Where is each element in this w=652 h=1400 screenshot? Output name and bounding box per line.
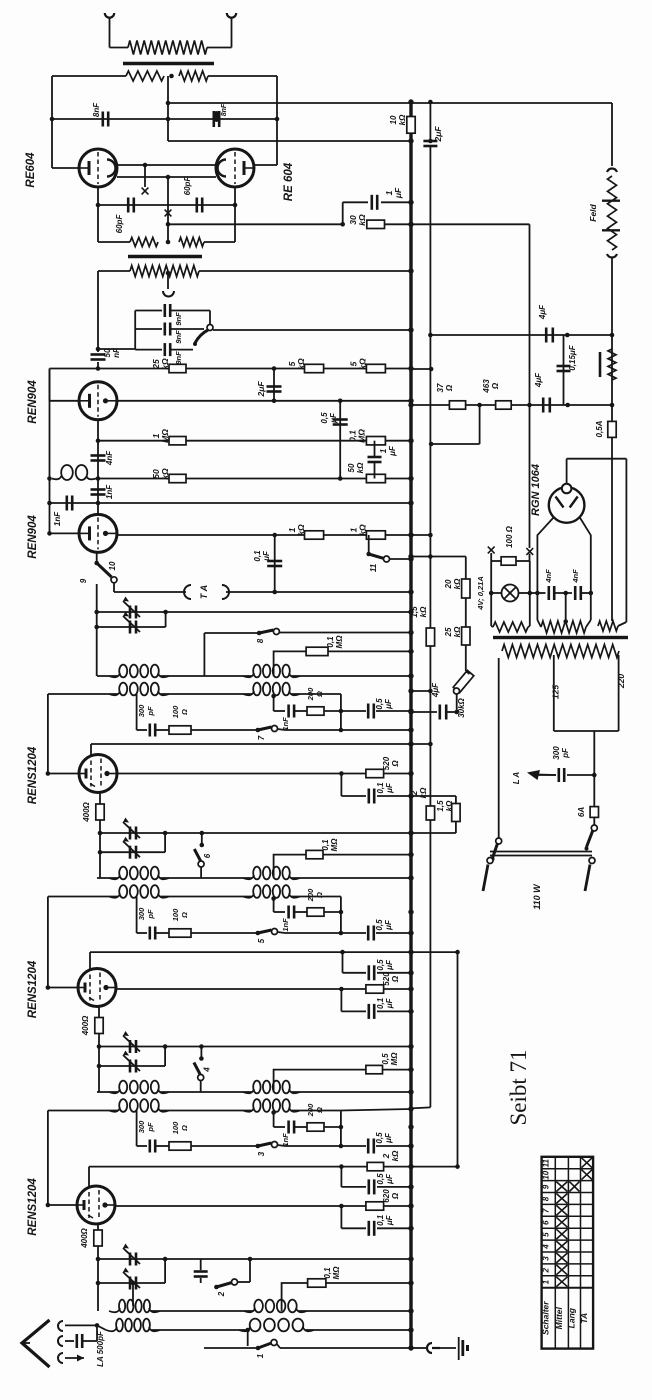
wire link row 2 xyxy=(117,176,216,178)
mains transformer core xyxy=(493,636,628,639)
svg-text:0,5: 0,5 xyxy=(375,698,384,710)
capacitor 1nF tap xyxy=(287,705,290,718)
wire xyxy=(276,76,278,165)
svg-text:Seibt 71: Seibt 71 xyxy=(506,1049,531,1125)
resistor 620 xyxy=(366,1202,384,1210)
node xyxy=(528,591,533,596)
svg-text:kΩ: kΩ xyxy=(296,524,306,536)
wire xyxy=(247,1330,249,1346)
svg-text:9: 9 xyxy=(542,1184,551,1189)
wire xyxy=(132,1283,134,1306)
heater winding RGN xyxy=(541,621,586,633)
svg-text:MΩ: MΩ xyxy=(390,1052,399,1066)
wire xyxy=(97,479,99,515)
node xyxy=(96,203,101,208)
svg-text:8nF: 8nF xyxy=(92,102,101,117)
node xyxy=(96,366,101,371)
wire xyxy=(529,224,531,548)
svg-text:kΩ: kΩ xyxy=(296,358,306,370)
resistor 50kOhm a xyxy=(169,474,186,482)
wire xyxy=(52,167,79,169)
capacitor 9nF c xyxy=(135,349,162,351)
wire xyxy=(341,729,411,731)
band filter right coil bottom xyxy=(253,1099,260,1112)
antenna socket 3 xyxy=(58,1353,63,1363)
loudspeaker terminal hook left xyxy=(105,13,114,18)
svg-text:5: 5 xyxy=(542,1232,551,1237)
band filter left coil bottom xyxy=(48,896,118,898)
svg-text:4nF: 4nF xyxy=(544,569,553,584)
svg-text:50: 50 xyxy=(347,463,356,472)
svg-text:4nF: 4nF xyxy=(105,450,114,466)
wire xyxy=(340,897,342,934)
wire xyxy=(254,164,277,166)
svg-text:300: 300 xyxy=(137,704,146,717)
mains primary xyxy=(502,645,619,658)
capacitor 1nF tap xyxy=(287,906,290,919)
wire xyxy=(555,592,572,594)
svg-text:μF: μF xyxy=(385,782,394,794)
node xyxy=(98,850,103,855)
svg-text:Ω: Ω xyxy=(391,760,400,768)
resistor 10kOhm xyxy=(407,117,415,134)
node xyxy=(428,689,433,694)
wire xyxy=(411,832,456,834)
svg-text:MΩ: MΩ xyxy=(332,1266,341,1280)
resistor 50kOhm b xyxy=(366,474,385,482)
svg-text:Ω: Ω xyxy=(491,382,500,390)
resistor 200 Ohm xyxy=(295,911,308,913)
variable capacitor a xyxy=(98,1258,411,1260)
resistor 520 xyxy=(366,985,384,993)
test point xyxy=(488,547,495,554)
node xyxy=(565,403,570,408)
resistor 2kOhm v xyxy=(426,806,434,820)
wire xyxy=(582,592,591,594)
svg-text:kΩ: kΩ xyxy=(358,358,368,370)
capacitor 500pF xyxy=(65,1340,74,1342)
svg-text:520: 520 xyxy=(382,972,391,986)
band filter right coil bottom xyxy=(253,885,260,898)
grid coil xyxy=(49,369,51,534)
svg-text:RENS1204: RENS1204 xyxy=(27,1178,39,1236)
svg-text:μF: μF xyxy=(384,1132,393,1144)
switch 5 xyxy=(255,931,260,936)
wire row 335 xyxy=(430,334,612,336)
node xyxy=(166,101,171,106)
wire xyxy=(278,1145,286,1146)
node xyxy=(166,117,171,122)
svg-text:kΩ: kΩ xyxy=(445,800,454,811)
wire xyxy=(529,561,531,626)
resistor 400 Ohm xyxy=(98,1007,100,1018)
svg-text:9: 9 xyxy=(79,578,88,583)
wire row446 xyxy=(431,443,480,445)
band filter left coil top xyxy=(97,877,118,879)
wire xyxy=(411,1347,426,1349)
svg-text:9nF: 9nF xyxy=(174,312,183,326)
capacitor 0,15uF xyxy=(563,335,565,405)
svg-text:400Ω: 400Ω xyxy=(82,801,91,822)
capacitor 1nF b xyxy=(66,496,69,511)
line x457 xyxy=(457,952,459,1167)
svg-text:5: 5 xyxy=(257,938,266,943)
node xyxy=(563,619,568,624)
resistor 20kOhm xyxy=(462,579,470,598)
wire row4 xyxy=(213,329,411,331)
svg-text:1nF: 1nF xyxy=(281,1133,290,1147)
capacitor 50nF xyxy=(91,353,106,356)
wire xyxy=(47,897,49,988)
svg-text:Feld: Feld xyxy=(588,203,598,221)
main HT bus xyxy=(409,102,412,1348)
capacitor 2uF xyxy=(273,369,275,401)
wire xyxy=(234,187,236,242)
svg-text:kΩ: kΩ xyxy=(398,114,407,125)
svg-text:30kΩ: 30kΩ xyxy=(457,697,466,717)
ground symbol xyxy=(458,1337,460,1360)
svg-text:2μF: 2μF xyxy=(256,381,266,398)
wire anode top xyxy=(566,459,568,484)
svg-text:10: 10 xyxy=(108,561,117,570)
svg-text:μF: μF xyxy=(384,698,393,710)
tube RENS1204 xyxy=(78,969,116,1007)
node xyxy=(428,742,433,747)
node xyxy=(589,591,594,596)
wire xyxy=(465,645,467,671)
svg-text:0,5: 0,5 xyxy=(376,959,385,971)
test point x xyxy=(165,210,172,217)
antenna socket 2 xyxy=(58,1336,63,1346)
wire xyxy=(208,75,277,77)
wire row3 xyxy=(199,270,411,272)
wire tap 220 xyxy=(618,655,620,731)
node xyxy=(272,590,277,595)
wire grid row B ext xyxy=(411,951,458,953)
node xyxy=(565,333,570,338)
svg-text:200: 200 xyxy=(306,888,315,902)
svg-text:MΩ: MΩ xyxy=(335,635,344,649)
capacitor 0,5uF sw xyxy=(341,1145,366,1147)
svg-text:125: 125 xyxy=(551,685,561,699)
wire 0,5M row xyxy=(274,1070,366,1092)
svg-text:10: 10 xyxy=(389,115,398,124)
svg-text:1nF: 1nF xyxy=(281,717,290,731)
svg-text:μF: μF xyxy=(384,919,393,931)
capacitor 2uF bus xyxy=(423,140,437,143)
capacitor 300pF xyxy=(137,932,147,934)
svg-text:Ω: Ω xyxy=(391,1192,400,1200)
node xyxy=(428,139,433,144)
svg-text:μF: μF xyxy=(385,1214,394,1226)
wire xyxy=(593,731,595,807)
wire lamp row right xyxy=(530,592,546,594)
capacitor 0,1uF TA xyxy=(274,535,276,592)
node xyxy=(94,610,99,615)
wire plate row xyxy=(116,988,411,990)
resistor 200 Ohm xyxy=(295,1126,308,1128)
capacitor 0,5uF c2 xyxy=(340,1167,342,1187)
bias resistor right xyxy=(179,238,204,247)
resistor 100 Ohm psu xyxy=(490,553,492,561)
svg-text:100 Ω: 100 Ω xyxy=(505,525,514,548)
switch 9-10 xyxy=(96,552,98,563)
svg-text:pF: pF xyxy=(561,747,570,759)
wire xyxy=(52,75,126,77)
svg-text:μF: μF xyxy=(385,959,394,971)
wire xyxy=(96,584,98,676)
svg-text:20: 20 xyxy=(444,579,453,589)
svg-text:μF: μF xyxy=(388,445,397,457)
svg-text:0,5: 0,5 xyxy=(375,919,384,931)
svg-text:4: 4 xyxy=(202,1067,211,1073)
wire xyxy=(465,598,467,627)
wire xyxy=(144,165,146,187)
switch 11 xyxy=(368,535,370,554)
svg-text:0,1: 0,1 xyxy=(323,1267,332,1279)
loudspeaker terminal hook right xyxy=(227,13,236,18)
antenna symbol xyxy=(22,1320,50,1367)
svg-text:0,5A: 0,5A xyxy=(595,420,604,437)
svg-text:4μF: 4μF xyxy=(534,372,543,388)
svg-text:Ω: Ω xyxy=(180,912,189,919)
output transformer secondary right half xyxy=(179,71,208,81)
svg-text:60pF: 60pF xyxy=(183,176,192,196)
svg-text:pF: pF xyxy=(146,909,155,920)
ground hook xyxy=(427,1343,440,1353)
svg-text:REN904: REN904 xyxy=(27,380,39,424)
antenna socket 1 xyxy=(58,1321,63,1331)
resistor 2kOhm row xyxy=(367,1162,384,1170)
potentiometer 30kOhm xyxy=(453,670,474,692)
wire xyxy=(136,1111,138,1147)
node xyxy=(233,203,238,208)
test point xyxy=(526,548,533,555)
band filter left coil bottom xyxy=(48,693,118,695)
node xyxy=(272,533,277,538)
node xyxy=(96,476,101,481)
switch 8 xyxy=(204,632,259,634)
wire 0,1M row a xyxy=(274,651,307,676)
heater winding lamp xyxy=(493,622,528,632)
node xyxy=(96,501,101,506)
variable capacitor b xyxy=(99,1065,160,1067)
svg-text:1: 1 xyxy=(379,448,388,453)
band filter left coil top xyxy=(97,1091,118,1093)
node xyxy=(98,831,103,836)
svg-text:25: 25 xyxy=(444,627,453,637)
svg-text:100: 100 xyxy=(171,908,180,921)
svg-text:pF: pF xyxy=(146,1122,155,1133)
svg-text:1,5: 1,5 xyxy=(436,800,445,812)
test point x xyxy=(142,188,149,195)
wire bias tap row xyxy=(168,223,343,225)
capacitor 1uF branch xyxy=(342,202,344,224)
svg-text:TA: TA xyxy=(579,1313,589,1324)
wire 0,1M row b xyxy=(274,855,306,878)
wire xyxy=(50,532,80,534)
TA jack right xyxy=(222,585,229,599)
wire xyxy=(411,795,456,797)
resistor 1,5kOhm v2 xyxy=(455,796,457,804)
svg-text:400Ω: 400Ω xyxy=(81,1015,90,1036)
tube RE604 left xyxy=(79,149,117,187)
wire xyxy=(436,1347,456,1349)
node xyxy=(166,175,171,180)
svg-text:0,15μF: 0,15μF xyxy=(568,344,577,370)
variable capacitor b xyxy=(98,1282,160,1284)
tube REN904 no2 xyxy=(79,514,117,552)
capacitor 300pF psu xyxy=(567,774,594,776)
node xyxy=(96,1257,101,1262)
svg-text:μF: μF xyxy=(385,1173,394,1185)
node xyxy=(97,1044,102,1049)
resistor 5kOhm a xyxy=(305,364,324,372)
wire top-cap xyxy=(89,952,91,970)
wire plate row xyxy=(115,1205,411,1207)
node coil tap xyxy=(271,694,276,699)
capacitor 4nF b xyxy=(574,586,577,600)
svg-text:1: 1 xyxy=(542,1279,551,1284)
wire tap 125 xyxy=(553,655,555,731)
wire grid row C ext xyxy=(411,1166,458,1168)
tube RGN1064 xyxy=(549,487,585,523)
svg-text:4μF: 4μF xyxy=(538,304,547,320)
tube RE604 right xyxy=(216,149,254,187)
wire ground row xyxy=(204,1347,258,1349)
resistor 37 Ohm xyxy=(449,401,465,409)
capacitor 4uF c xyxy=(542,398,545,413)
mains plug right xyxy=(589,858,595,864)
node coil tap xyxy=(271,896,276,901)
speaker voice-coil winding xyxy=(128,41,207,55)
svg-text:kΩ: kΩ xyxy=(453,578,462,589)
wire xyxy=(203,633,205,676)
svg-text:100: 100 xyxy=(171,1121,180,1134)
band filter left coil bottom xyxy=(48,1110,118,1112)
svg-text:Ω: Ω xyxy=(315,892,324,899)
svg-text:9nF: 9nF xyxy=(174,330,183,344)
node xyxy=(563,591,568,596)
wire grid xyxy=(48,1204,77,1206)
heater winding rect xyxy=(598,621,618,631)
svg-text:T A: T A xyxy=(199,585,209,599)
wire xyxy=(65,1324,97,1326)
svg-text:3: 3 xyxy=(257,1151,266,1156)
band filter 4 right top coil xyxy=(254,1300,263,1313)
wire xyxy=(341,1109,411,1111)
field coil Feld xyxy=(607,168,617,172)
wire xyxy=(50,368,99,370)
resistor 400 Ohm xyxy=(97,1224,99,1230)
svg-text:1nF: 1nF xyxy=(105,484,114,499)
svg-text:0,1: 0,1 xyxy=(376,782,385,794)
node xyxy=(94,625,99,630)
wire xyxy=(554,730,619,732)
wire 50k row xyxy=(98,478,411,480)
capacitor 1uF b xyxy=(374,441,376,457)
svg-text:11: 11 xyxy=(542,1159,551,1168)
wire xyxy=(96,1325,98,1341)
wire row2 xyxy=(168,140,411,142)
svg-text:8: 8 xyxy=(256,638,265,643)
wire xyxy=(340,694,342,730)
capacitor 60pF left xyxy=(127,198,130,213)
tube RENS1204 xyxy=(79,755,117,793)
capacitor 1nF a xyxy=(91,488,106,491)
band filter right coil top xyxy=(253,1081,260,1094)
wire xyxy=(273,899,275,913)
node xyxy=(96,347,101,352)
wire xyxy=(385,223,530,225)
svg-text:kΩ: kΩ xyxy=(453,626,462,637)
switch 7 xyxy=(255,728,260,733)
svg-text:kΩ: kΩ xyxy=(356,462,365,473)
svg-text:0,5: 0,5 xyxy=(320,412,329,424)
svg-text:0,5: 0,5 xyxy=(381,1053,390,1065)
switch mains right xyxy=(591,825,597,831)
resistor 100 Ohm xyxy=(156,932,169,934)
capacitor 8nF left xyxy=(102,112,105,127)
resistor 1kOhm a xyxy=(305,531,324,539)
svg-text:Lang: Lang xyxy=(567,1307,577,1328)
svg-text:MΩ: MΩ xyxy=(330,838,339,852)
node xyxy=(47,476,52,481)
switch position table xyxy=(542,1157,594,1349)
parallel line 2 xyxy=(429,102,431,141)
driver transformer primary xyxy=(130,266,199,277)
node xyxy=(340,222,345,227)
variable capacitor a xyxy=(99,1046,411,1048)
wire filament left xyxy=(537,517,554,620)
svg-text:60pF: 60pF xyxy=(115,214,124,234)
svg-text:3: 3 xyxy=(542,1256,551,1261)
mains cord xyxy=(490,851,592,853)
resistor 1kOhm b xyxy=(366,531,385,539)
switch 6 xyxy=(201,833,203,845)
svg-text:μF: μF xyxy=(393,187,403,199)
tube RENS1204 xyxy=(77,1186,115,1224)
wire 1nF row xyxy=(50,502,412,504)
band filter 4 left bottom coil xyxy=(97,1325,106,1330)
switch mains left xyxy=(496,838,502,844)
svg-text:Ω: Ω xyxy=(180,709,189,716)
wire 0,1M row c xyxy=(282,1283,308,1311)
svg-text:400Ω: 400Ω xyxy=(80,1227,89,1248)
svg-text:220: 220 xyxy=(616,674,626,689)
wire xyxy=(565,593,567,620)
wire xyxy=(109,17,111,48)
band filter right coil top xyxy=(253,867,260,880)
svg-text:37: 37 xyxy=(436,383,445,392)
capacitor 0,1uF an xyxy=(340,774,342,797)
wire top-cap xyxy=(88,1167,90,1188)
svg-text:10: 10 xyxy=(542,1170,551,1179)
capacitor 60pF right xyxy=(196,198,199,213)
capacitor 4uF a xyxy=(411,711,437,713)
svg-text:8nF: 8nF xyxy=(221,103,228,116)
wire grid link row xyxy=(117,164,216,166)
wire xyxy=(167,177,169,242)
wire grid row REN904-1 xyxy=(98,368,411,370)
wire HT row xyxy=(411,404,612,406)
svg-text:4: 4 xyxy=(542,1244,551,1250)
resistor 0,1MOhm a xyxy=(366,437,385,445)
svg-text:520: 520 xyxy=(382,756,391,770)
wire mains left xyxy=(498,658,500,838)
svg-text:6: 6 xyxy=(542,1220,551,1225)
wire xyxy=(51,76,53,168)
